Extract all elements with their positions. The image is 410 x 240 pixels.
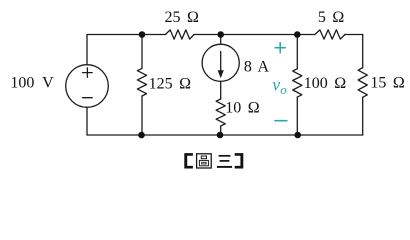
caption left bracket bbox=[184, 153, 193, 168]
wire bottom bbox=[87, 134, 363, 136]
wire 100-ohm branch lower lead bbox=[296, 97, 298, 135]
caption glyph SAN (three) bbox=[217, 156, 232, 167]
wire top: VS top to 25-ohm left lead bbox=[87, 34, 165, 36]
wire current-source branch upper lead bbox=[220, 35, 222, 45]
vo minus sign (teal) bbox=[275, 120, 287, 122]
svg-text:8 A: 8 A bbox=[244, 59, 270, 76]
wire 125-ohm branch upper lead bbox=[141, 35, 143, 69]
wire 125-ohm branch lower lead bbox=[141, 96, 143, 135]
node dot top C bbox=[294, 31, 301, 38]
svg-text:vo: vo bbox=[272, 74, 287, 97]
wire right branch lower lead bbox=[362, 97, 364, 135]
wire top: 25-ohm to 5-ohm bbox=[194, 34, 315, 36]
wire 10-ohm lower lead bbox=[220, 126, 222, 135]
resistor R 15ohm zigzag bbox=[358, 68, 367, 98]
node dot bottom B bbox=[217, 132, 224, 139]
wire top right corner bbox=[345, 34, 363, 36]
wire right branch upper lead bbox=[362, 35, 364, 68]
caption right bracket bbox=[235, 153, 244, 168]
resistor R 100ohm zigzag bbox=[293, 69, 302, 97]
resistor R 25ohm zigzag bbox=[165, 30, 194, 39]
node dot bottom A bbox=[138, 132, 145, 139]
voltage source minus sign bbox=[83, 97, 93, 99]
svg-text:5 Ω: 5 Ω bbox=[318, 9, 345, 26]
caption glyph TU (picture) bbox=[197, 154, 212, 168]
node dot top A bbox=[139, 31, 146, 38]
svg-text:125 Ω: 125 Ω bbox=[149, 75, 192, 92]
resistor R 125ohm zigzag bbox=[137, 68, 146, 96]
wire left branch lower bbox=[86, 107, 88, 135]
wire left branch upper bbox=[86, 35, 88, 65]
svg-text:100 Ω: 100 Ω bbox=[304, 75, 347, 92]
current source arrow shaft bbox=[220, 52, 222, 72]
svg-text:100 V: 100 V bbox=[10, 74, 54, 91]
svg-text:10 Ω: 10 Ω bbox=[225, 100, 260, 117]
svg-text:25 Ω: 25 Ω bbox=[165, 9, 200, 26]
voltage source plus sign bbox=[83, 68, 93, 78]
wire current source to 10-ohm bbox=[220, 81, 222, 99]
current source arrowhead bbox=[218, 70, 224, 78]
node dot top B bbox=[217, 31, 224, 38]
resistor R 10ohm zigzag bbox=[216, 99, 225, 126]
current source I1 circle bbox=[202, 44, 239, 81]
svg-text:15 Ω: 15 Ω bbox=[370, 75, 405, 92]
wire 100-ohm branch upper lead bbox=[296, 35, 298, 69]
vo plus sign (teal) bbox=[275, 43, 285, 53]
voltage source V1 circle bbox=[66, 65, 109, 108]
resistor R 5ohm zigzag bbox=[315, 30, 345, 39]
node dot bottom C bbox=[294, 132, 301, 139]
